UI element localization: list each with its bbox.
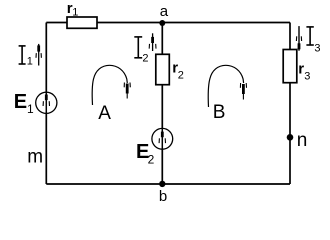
node n — [287, 130, 308, 151]
resistor R2 — [156, 54, 184, 84]
svg-text:b: b — [159, 188, 167, 205]
svg-text:m: m — [27, 147, 43, 168]
svg-text:a: a — [160, 3, 169, 20]
wire right — [289, 23, 291, 185]
svg-text:1: 1 — [72, 6, 78, 18]
current label I1 — [19, 46, 33, 68]
current I2 arrow — [149, 33, 156, 51]
current I3 arrow (down) — [296, 26, 301, 51]
svg-text:r: r — [298, 60, 304, 77]
current I1 arrow — [36, 44, 41, 66]
svg-text:1: 1 — [27, 102, 34, 116]
node a — [159, 3, 169, 26]
EMF source E1 — [14, 91, 57, 116]
resistor R1 — [67, 0, 97, 28]
current label I3 — [306, 27, 320, 55]
svg-text:B: B — [213, 102, 226, 123]
loop arrow B — [208, 65, 246, 123]
svg-text:n: n — [297, 130, 308, 151]
wire middle branch — [161, 23, 163, 185]
svg-text:3: 3 — [304, 71, 310, 83]
svg-text:E: E — [14, 91, 27, 113]
wire bottom — [46, 183, 290, 185]
svg-text:2: 2 — [142, 53, 148, 65]
svg-text:2: 2 — [148, 153, 155, 167]
wire top — [46, 22, 290, 24]
svg-text:A: A — [98, 103, 111, 124]
resistor R3 — [283, 50, 310, 83]
wire left — [45, 23, 47, 185]
current label I2 — [134, 37, 148, 65]
EMF source E2 — [136, 128, 173, 166]
node b — [159, 181, 167, 205]
svg-text:2: 2 — [178, 70, 184, 82]
loop arrow A — [92, 65, 130, 124]
svg-text:1: 1 — [27, 56, 33, 68]
svg-text:3: 3 — [314, 43, 320, 55]
